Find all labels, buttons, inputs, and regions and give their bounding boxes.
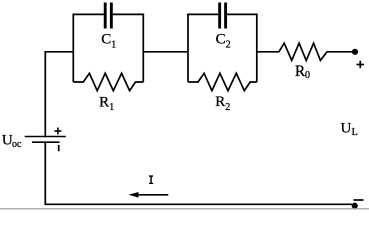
- svg-text:2: 2: [226, 39, 231, 50]
- svg-text:C: C: [216, 32, 226, 48]
- svg-text:0: 0: [305, 70, 310, 81]
- svg-text:U: U: [341, 120, 352, 136]
- svg-text:oc: oc: [12, 139, 22, 150]
- svg-text:2: 2: [225, 102, 230, 113]
- svg-text:1: 1: [111, 39, 116, 50]
- svg-text:C: C: [101, 32, 111, 48]
- svg-text:1: 1: [109, 102, 114, 113]
- svg-text:L: L: [352, 127, 358, 138]
- svg-text:R: R: [99, 94, 109, 110]
- svg-text:R: R: [215, 94, 225, 110]
